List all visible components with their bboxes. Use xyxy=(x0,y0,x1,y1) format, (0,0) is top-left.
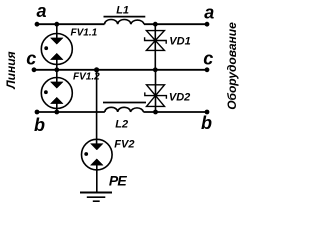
wire VD1 vertical lead xyxy=(154,24,156,70)
junction FV2 / wire c xyxy=(94,67,99,72)
node b left terminal xyxy=(35,110,40,115)
wire a (top line, right segment) xyxy=(144,23,207,25)
wire b (bottom line, left segment) xyxy=(37,111,105,113)
node b right terminal xyxy=(205,110,210,115)
svg-text:VD2: VD2 xyxy=(169,92,190,104)
wire FV2 top lead (from node c, crosses wire b without junction) xyxy=(96,70,98,144)
diode VD1 (bidirectional suppressor) xyxy=(145,31,167,51)
junction FV1.1 / wire a xyxy=(54,22,59,27)
node c right terminal xyxy=(205,67,210,72)
wire b (bottom line, right segment) xyxy=(143,111,207,113)
svg-text:L2: L2 xyxy=(115,119,128,131)
wire FV1.1 top lead xyxy=(56,24,58,38)
inductor L1 xyxy=(104,17,146,25)
svg-text:a: a xyxy=(204,2,214,22)
wire FV1.2 top lead xyxy=(56,70,58,83)
wire FV1.2 bottom lead xyxy=(56,103,58,112)
node c left terminal xyxy=(32,67,37,72)
arrester FV1.2 xyxy=(41,78,72,109)
svg-text:VD1: VD1 xyxy=(169,36,190,48)
wire FV2 bottom lead xyxy=(96,165,98,193)
svg-text:PE: PE xyxy=(109,173,128,189)
wire c (middle line) xyxy=(34,69,207,71)
inductor L2 xyxy=(103,103,146,113)
svg-text:a: a xyxy=(37,1,47,21)
node a right terminal xyxy=(205,22,210,27)
junction VD1 / wire a xyxy=(153,22,158,27)
wire FV1.1 bottom lead xyxy=(56,59,58,70)
svg-text:c: c xyxy=(203,49,213,69)
svg-text:Оборудование: Оборудование xyxy=(225,22,239,110)
svg-text:L1: L1 xyxy=(116,5,129,17)
svg-text:b: b xyxy=(201,113,212,133)
svg-text:FV1.1: FV1.1 xyxy=(71,28,98,39)
node a left terminal xyxy=(35,22,40,27)
wire a (top line, left segment) xyxy=(37,23,105,25)
junction VD2 / wire b xyxy=(153,110,158,115)
wire VD2 vertical lead xyxy=(155,70,157,112)
junction FV column / wire c xyxy=(54,67,59,72)
diode VD2 (bidirectional suppressor) xyxy=(145,85,167,107)
junction VD column / wire c xyxy=(153,67,158,72)
svg-text:b: b xyxy=(34,115,45,135)
svg-text:c: c xyxy=(26,49,36,69)
junction FV1.2 / wire b xyxy=(54,110,59,115)
svg-text:Линия: Линия xyxy=(4,51,18,89)
arrester FV1.1 xyxy=(41,34,72,65)
svg-text:FV2: FV2 xyxy=(114,138,134,150)
arrester FV2 xyxy=(82,139,113,170)
ground PE xyxy=(80,193,112,202)
